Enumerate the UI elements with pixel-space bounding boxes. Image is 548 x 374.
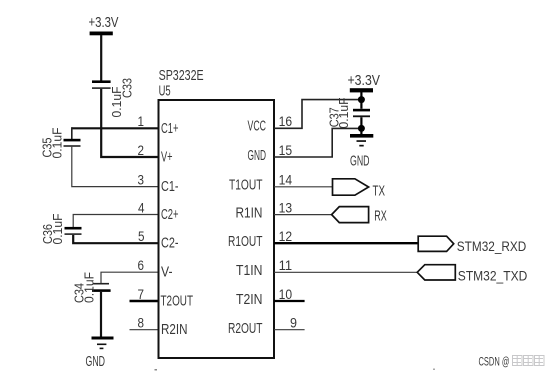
wire pin 5 xyxy=(72,235,158,243)
svg-text:V+: V+ xyxy=(161,149,173,166)
junction xyxy=(358,125,365,132)
svg-text:12: 12 xyxy=(279,229,293,244)
speck xyxy=(155,369,158,371)
svg-text:10: 10 xyxy=(279,287,293,302)
ground (right) xyxy=(350,134,373,169)
svg-text:4: 4 xyxy=(138,200,145,215)
svg-text:5: 5 xyxy=(138,229,145,244)
svg-text:RX: RX xyxy=(374,208,387,225)
svg-text:GND: GND xyxy=(248,147,267,164)
svg-text:T2OUT: T2OUT xyxy=(161,293,194,310)
wire pin 16 xyxy=(274,100,358,129)
svg-text:STM32_RXD: STM32_RXD xyxy=(457,239,527,254)
wire xyxy=(71,127,73,140)
svg-text:11: 11 xyxy=(279,258,293,273)
svg-text:C1+: C1+ xyxy=(161,120,179,137)
svg-text:VCC: VCC xyxy=(248,117,267,134)
op-amp U1 chip body SP3232E U5 xyxy=(159,67,275,358)
svg-text:V-: V- xyxy=(161,264,173,281)
svg-text:+3.3V: +3.3V xyxy=(89,14,119,31)
svg-text:T1OUT: T1OUT xyxy=(229,176,263,193)
port TX xyxy=(333,179,386,200)
svg-text:16: 16 xyxy=(279,114,293,129)
port STM32_TXD xyxy=(417,265,527,284)
svg-text:T2IN: T2IN xyxy=(236,291,263,308)
svg-text:U5: U5 xyxy=(159,82,171,99)
svg-text:0.1uF: 0.1uF xyxy=(82,272,97,303)
wire pin 9 xyxy=(274,329,305,331)
svg-text:R1OUT: R1OUT xyxy=(228,233,263,250)
svg-text:15: 15 xyxy=(279,143,293,158)
wire xyxy=(100,35,102,81)
wire pin 10 xyxy=(274,300,305,302)
svg-text:C2-: C2- xyxy=(161,235,179,252)
capacitor C35 xyxy=(40,127,81,158)
svg-text:9: 9 xyxy=(290,316,297,331)
wire pin 14 xyxy=(274,186,333,188)
svg-text:1: 1 xyxy=(138,114,145,129)
wire pin 7 xyxy=(130,300,159,302)
power +3.3V (right) xyxy=(348,72,381,93)
wire pin 11 xyxy=(274,271,417,273)
svg-text:0.1uF: 0.1uF xyxy=(50,213,65,244)
svg-text:R2OUT: R2OUT xyxy=(228,320,263,337)
svg-text:C2+: C2+ xyxy=(161,206,179,223)
svg-text:GND: GND xyxy=(350,152,370,169)
svg-text:14: 14 xyxy=(279,173,293,188)
svg-text:C1-: C1- xyxy=(161,178,179,195)
capacitor C36 xyxy=(40,213,82,244)
svg-text:R2IN: R2IN xyxy=(161,321,188,338)
capacitor C37 xyxy=(327,97,371,128)
wire xyxy=(360,92,362,136)
svg-text:TX: TX xyxy=(373,182,386,199)
wire pin 15 xyxy=(274,128,358,157)
svg-text:C33: C33 xyxy=(120,78,135,98)
svg-text:6: 6 xyxy=(138,258,145,273)
svg-text:0.1uF: 0.1uF xyxy=(336,97,351,128)
junction xyxy=(358,96,365,103)
wire pin 1 xyxy=(72,127,159,129)
port STM32_RXD xyxy=(418,236,526,254)
svg-text:GND: GND xyxy=(86,353,106,370)
wire pin 6 xyxy=(101,272,159,283)
wire xyxy=(100,292,102,337)
capacitor C33 xyxy=(92,78,135,118)
wire pin 12 xyxy=(274,242,418,244)
watermark CSDN xyxy=(479,356,545,369)
svg-text:8: 8 xyxy=(138,316,145,331)
wire pin 13 xyxy=(274,214,332,216)
svg-text:T1IN: T1IN xyxy=(236,262,263,279)
svg-text:STM32_TXD: STM32_TXD xyxy=(458,268,528,283)
wire pin 8 xyxy=(130,329,159,331)
power +3.3V (left) xyxy=(89,14,119,36)
svg-text:7: 7 xyxy=(138,287,145,302)
svg-text:3: 3 xyxy=(138,173,145,188)
capacitor C34 xyxy=(71,272,110,303)
speck xyxy=(433,369,435,371)
wire pin 3 xyxy=(72,147,159,187)
svg-text:13: 13 xyxy=(279,201,293,216)
port RX xyxy=(332,207,387,225)
svg-text:+3.3V: +3.3V xyxy=(348,72,381,89)
ground (left) xyxy=(86,337,114,371)
svg-text:CSDN @: CSDN @ xyxy=(479,356,510,368)
svg-text:0.1uF: 0.1uF xyxy=(50,127,65,158)
wire pin 4 xyxy=(73,215,158,228)
wire xyxy=(101,89,158,157)
svg-text:R1IN: R1IN xyxy=(236,205,263,222)
svg-text:2: 2 xyxy=(138,143,145,158)
